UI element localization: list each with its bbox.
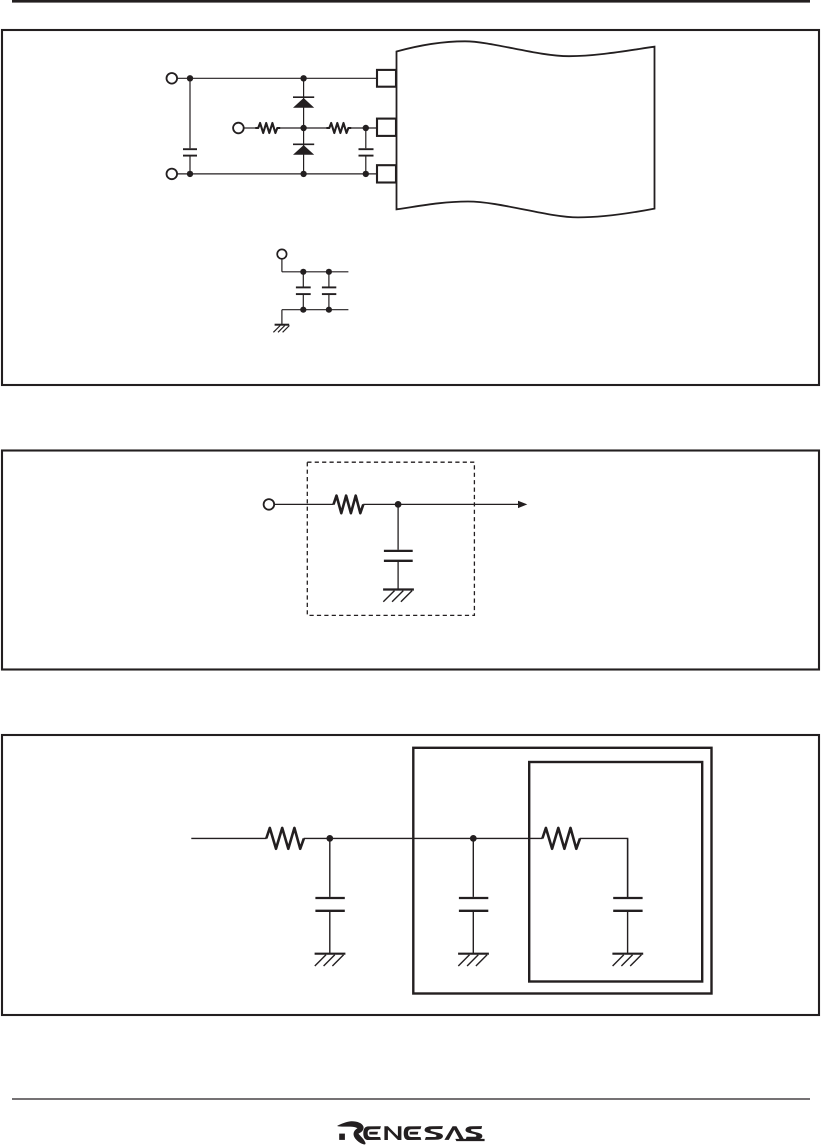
capacitor C3 wire bottom: [302, 295, 304, 310]
logo letter E2: [404, 1126, 422, 1140]
capacitor C1 vertical wire top: [189, 78, 191, 148]
header rule: [12, 0, 810, 3]
junction bottom-right: [363, 171, 369, 177]
junction top-center: [300, 75, 306, 81]
ground 3 fig3 hatches: [613, 955, 624, 966]
pin box 1: [377, 70, 396, 87]
junction top-left: [187, 75, 193, 81]
junction bottom-center: [300, 171, 306, 177]
diode D2 triangle: [293, 145, 314, 155]
ground 3 fig3 bar: [612, 953, 643, 955]
wire output fig2: [363, 503, 519, 505]
capacitor C8 wire top: [627, 838, 629, 897]
resistor R2 fig1: [326, 123, 351, 133]
capacitor C5 wire top: [397, 504, 399, 549]
capacitor C1 plates: [183, 148, 197, 150]
wire middle left fig1: [244, 127, 256, 129]
wire from terminal down: [281, 259, 283, 272]
junction dot fig2: [395, 501, 402, 508]
diode D1 cathode bar: [293, 96, 314, 98]
ground sub-circuit hatches: [273, 326, 280, 333]
logo letter N: [384, 1126, 401, 1140]
capacitor C6 wire top: [329, 838, 331, 897]
capacitor C3 wire top: [302, 272, 304, 287]
module inner rectangle fig3: [529, 762, 702, 982]
logo letter E1: [363, 1126, 381, 1140]
diode D1 triangle: [293, 98, 314, 108]
junction sub-circuit bottom-2: [326, 307, 332, 313]
logo letter A: [444, 1126, 464, 1140]
terminal circle middle (fig1): [233, 123, 244, 134]
junction bottom-left: [187, 171, 193, 177]
junction dot 2 fig3: [470, 835, 477, 842]
diode D2 branch wire: [303, 128, 305, 174]
ground 1 fig3 hatches: [315, 955, 326, 966]
capacitor C8 wire bottom: [627, 912, 629, 954]
ground fig2 hatches: [383, 591, 394, 602]
capacitor C7 plates: [459, 897, 488, 899]
capacitor C2 vertical wire bottom: [365, 157, 367, 174]
capacitor C7 wire bottom: [472, 912, 474, 954]
capacitor C2 plates: [359, 148, 374, 150]
resistor R4 fig3: [266, 828, 304, 849]
ground fig2 bar: [383, 588, 414, 590]
footer rule: [12, 1098, 810, 1100]
junction sub-circuit top-1: [300, 269, 306, 275]
capacitor C4 wire bottom: [328, 295, 330, 310]
junction sub-circuit top-2: [326, 269, 332, 275]
wire bottom rail fig1: [177, 173, 377, 175]
diode D1 branch wire: [303, 78, 305, 128]
capacitor C1 vertical wire bottom: [189, 157, 191, 174]
capacitor C6 wire bottom: [329, 912, 331, 954]
ground sub-circuit bar: [275, 324, 290, 326]
wire middle right fig1: [351, 127, 377, 129]
figure box 2: [2, 451, 819, 670]
Renesas logo: [337, 1121, 485, 1144]
junction sub-circuit bottom-1: [300, 307, 306, 313]
junction dot 1 fig3: [326, 835, 333, 842]
figure box 1: [2, 30, 819, 385]
capacitor C4 plates: [322, 286, 336, 288]
wire input fig3: [191, 837, 266, 839]
terminal circle sub-circuit fig1: [277, 249, 286, 258]
terminal circle top (fig1): [167, 73, 178, 84]
ground 2 fig3 hatches: [458, 955, 469, 966]
terminal circle fig2: [264, 499, 275, 510]
logo baseline extension under AS: [455, 1139, 484, 1141]
arrowhead fig2: [518, 501, 527, 508]
capacitor C5 plates: [384, 550, 413, 552]
junction middle-right: [363, 125, 369, 131]
capacitor C4 wire top: [328, 272, 330, 287]
capacitor C7 wire top: [472, 838, 474, 897]
wire down to ground: [281, 310, 283, 325]
logo R swoosh and tail: [337, 1121, 366, 1144]
IC body flag shape: [397, 41, 655, 217]
wire after R5 fig3: [580, 838, 628, 897]
junction middle-center: [300, 125, 306, 131]
ground 1 fig3 bar: [315, 953, 346, 955]
wire input fig2: [274, 503, 333, 505]
chip outer rectangle fig3: [413, 748, 711, 994]
wire top rail fig1: [177, 77, 377, 79]
pin box 3: [377, 165, 396, 182]
resistor R1 fig1: [255, 123, 280, 133]
dashed block boundary fig2: [307, 462, 474, 615]
capacitor C3 plates: [296, 286, 311, 288]
logo letter S2: [465, 1126, 482, 1140]
capacitor C5 wire bottom: [397, 562, 399, 590]
resistor R5 fig3: [542, 828, 580, 849]
wire middle fig3: [304, 837, 543, 839]
logo letter S1: [425, 1126, 443, 1140]
resistor R3 fig2: [334, 496, 364, 514]
figure box 3: [2, 735, 819, 1015]
ground 2 fig3 bar: [458, 953, 489, 955]
wire bottom rail sub-circuit: [282, 309, 349, 311]
capacitor C8 plates: [613, 897, 642, 899]
diode D2 cathode bar: [293, 143, 314, 145]
wire middle center fig1: [280, 127, 327, 129]
wire top rail sub-circuit: [282, 271, 349, 273]
pin box 2: [377, 119, 396, 136]
logo R square dot: [339, 1134, 345, 1140]
capacitor C2 vertical wire top: [365, 128, 367, 148]
terminal circle bottom (fig1): [167, 169, 178, 180]
capacitor C6 plates: [315, 897, 344, 899]
